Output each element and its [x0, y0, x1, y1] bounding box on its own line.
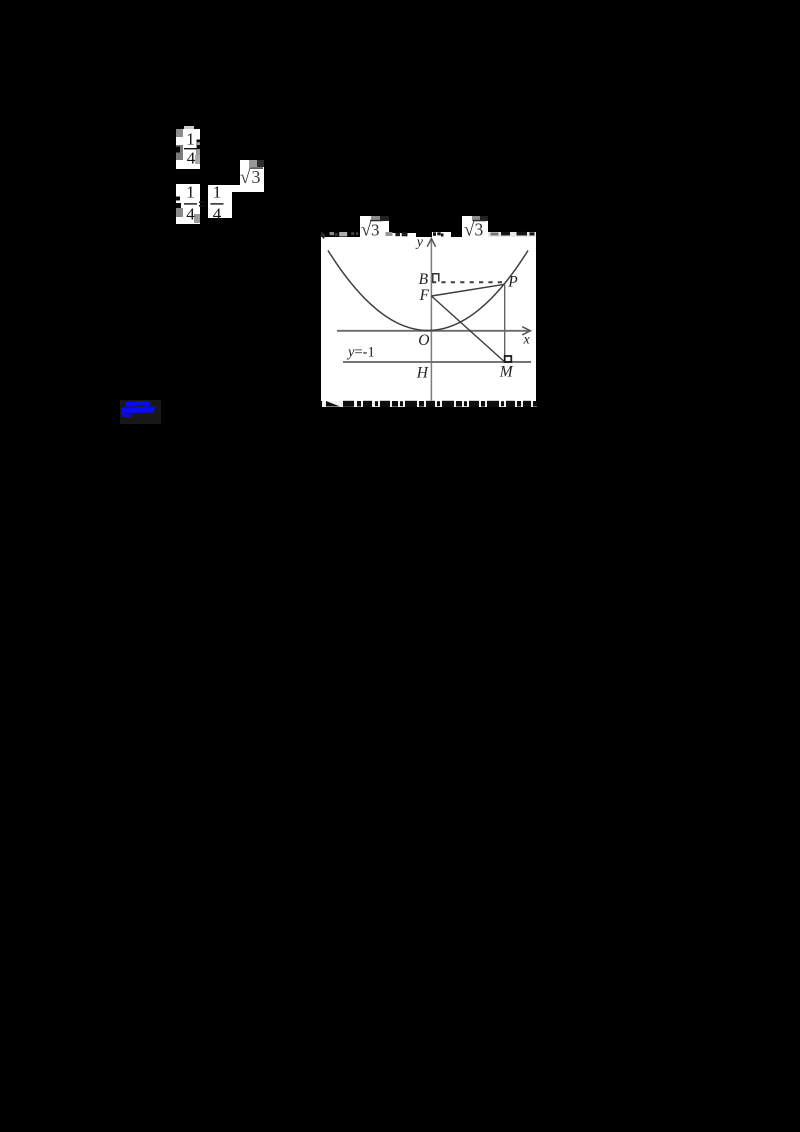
white strip right of y-axis above box top	[432, 232, 451, 237]
svg-text:4: 4	[186, 205, 195, 224]
svg-text:3: 3	[475, 220, 484, 240]
fraction1 bar	[184, 148, 197, 149]
svg-text:x: x	[523, 333, 531, 348]
fraction1 left edge dot fragment	[176, 147, 180, 153]
gray block on sqrt3b patch	[472, 216, 480, 221]
fraction2 left edge dots	[176, 197, 180, 201]
white patch: sqrt3 (left column)	[240, 160, 265, 192]
clipped fragments group 3 (right of y-axis)	[433, 232, 436, 236]
white fragment strip top-left 2	[384, 233, 417, 238]
gray jpeg block left-mid of fraction1	[176, 145, 183, 160]
svg-text:H: H	[416, 365, 429, 382]
gray block on sqrt3a patch	[371, 216, 380, 221]
gray jpeg block right of fraction1	[196, 143, 200, 155]
line y=-1	[343, 361, 531, 363]
white patch: sqrt3 above graph (second)	[462, 216, 488, 237]
svg-text:1: 1	[186, 183, 195, 202]
fraction2 bar	[184, 203, 197, 204]
equals fragment between fraction2 and fraction3	[199, 202, 205, 204]
fraction3 bar	[211, 203, 224, 204]
x-axis arrowhead	[522, 327, 530, 335]
right-angle mark at B	[433, 274, 439, 282]
svg-text:y: y	[415, 235, 424, 250]
svg-text:M: M	[499, 364, 514, 381]
gray jpeg block left of fraction2	[176, 208, 183, 217]
svg-text:P: P	[507, 274, 518, 291]
dashed segment B to P	[432, 281, 503, 283]
fraction1 right edge fragments	[197, 140, 201, 143]
right-angle square at M	[505, 356, 512, 362]
svg-text:O: O	[418, 332, 429, 349]
y-axis arrowhead	[427, 238, 435, 246]
blue scribble stroke top	[126, 401, 151, 407]
gray jpeg block bottom-right of fraction1	[195, 155, 200, 164]
svg-text:3: 3	[371, 221, 380, 240]
white patch: fraction 1/4 (first, top-left)	[176, 129, 200, 169]
svg-text:y=-1: y=-1	[346, 344, 375, 360]
svg-text:√: √	[464, 220, 475, 241]
segment P to M (vertical)	[504, 284, 506, 356]
white patch: sqrt3 above graph (first)	[360, 216, 389, 237]
bottom clipped-text strip below graph box (white backing)	[322, 401, 537, 408]
svg-text:3: 3	[252, 167, 261, 187]
svg-text:1: 1	[186, 130, 195, 149]
dark block on sqrt3a patch	[380, 216, 389, 221]
blue scribble connector	[145, 404, 151, 409]
svg-text:F: F	[419, 287, 430, 304]
gray jpeg block top-left of fraction1	[176, 129, 183, 137]
svg-text:4: 4	[187, 149, 196, 168]
dark block on sqrt3b patch	[480, 216, 488, 221]
whitish strip top-right fragments	[487, 232, 536, 238]
white patch: fraction 1/4 (third)	[208, 185, 232, 218]
clipped text fragments above box edge (left group)	[321, 232, 326, 240]
parabola	[328, 251, 528, 331]
white patch: fraction 1/4 (second)	[176, 184, 200, 224]
y-axis	[430, 240, 432, 401]
dark jpeg block top-right of sqrt3 patch	[257, 160, 264, 167]
svg-text:4: 4	[213, 205, 222, 224]
segment F to P	[431, 284, 504, 296]
white strip connecting sqrt3 patch to fraction3	[230, 185, 242, 192]
svg-text:1: 1	[213, 183, 222, 202]
clipped fragments group 2	[386, 232, 393, 236]
gray jpeg block top of sqrt3 patch	[249, 160, 257, 167]
gray backing of blue scribble	[120, 400, 161, 424]
clipped fragments group 4	[491, 233, 499, 236]
svg-text:√: √	[240, 167, 251, 188]
graph figure white box	[321, 237, 537, 401]
light notch above fraction1	[184, 126, 194, 129]
gray jpeg block bottom of fraction2	[194, 214, 200, 223]
blue scribble tail	[122, 413, 132, 417]
bottom strip clipped glyph chunks	[326, 401, 537, 407]
svg-text:B: B	[419, 271, 429, 288]
blue scribble stroke bottom	[121, 406, 156, 413]
segment F to M	[431, 296, 504, 362]
x-axis	[337, 330, 529, 332]
